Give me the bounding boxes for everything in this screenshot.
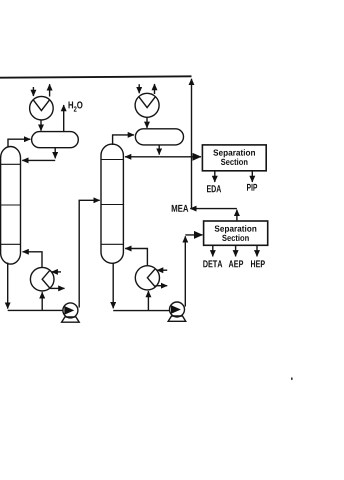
wire HEP product [256,245,258,256]
pump P1 [63,303,78,318]
wire recycle header (top) [0,76,192,77]
condenser E2 [135,93,159,117]
separation section 2 box [204,221,268,245]
column C1 section line 2 [1,204,21,206]
wire B2 liquid feed [147,291,149,311]
wire D1 reflux to C1 [22,159,55,161]
wire P2 discharge riser [184,236,186,306]
reflux drum D1 [32,132,79,148]
reboiler B1 [30,267,54,291]
wire H2O product [63,105,65,131]
wire E2 coolant out [154,84,156,94]
wire PIP product [251,171,253,182]
wire P1 discharge feed to C2 [79,200,100,307]
wire D2 outlet down [158,145,160,155]
wire AEP product [235,245,237,256]
wire D1 reflux down [54,148,56,158]
wire C1 bottoms down [7,263,9,309]
wire C2 overhead vapor to drum D2 [113,135,134,145]
label MEA [172,205,189,212]
pump P2 [170,302,185,317]
wire MEA recycle riser [191,79,193,209]
separation section 1 box [202,145,266,171]
wire C2 bottoms down [112,264,114,309]
wire DETA product [212,245,214,256]
label H2O [69,101,83,111]
wire E1 coolant in [32,87,34,96]
column C2 section line 3 [101,243,123,245]
wire E2 outlet to drum D2 [146,117,148,128]
reflux drum D2 [135,129,183,145]
column C2 section line 2 [101,204,123,206]
reboiler B2 [135,266,159,290]
column C2 section line 1 [101,159,123,161]
wire E1 coolant out [49,84,51,96]
wire C1 overhead vapor to drum D1 [8,139,30,147]
label AEP [229,260,244,267]
condenser E1 [30,96,54,120]
column C1 section line 1 [1,163,21,165]
wire D2 distillate to separation section 1 [159,156,201,158]
wire B1 liquid feed [41,292,43,310]
wire MEA header [190,208,237,210]
wire B1 vapor return to C1 [23,252,43,267]
label separation section 2 [215,225,257,233]
wire B2 vapor return to C2 [125,249,147,266]
wire MEA from separation section 2 [236,210,238,221]
wire P2 feed to separation section 2 [185,234,202,236]
column C1 [1,147,21,265]
column C2 [101,144,123,263]
wire B1 heat in [52,271,61,273]
label EDA [207,185,221,192]
label separation section 1 [213,149,255,157]
label DETA [203,260,222,267]
wire E2 coolant in [138,84,140,93]
wire D2 reflux to C2 [125,156,159,158]
speck artifact [291,378,293,380]
wire B2 heat out [155,285,167,287]
wire C1 bottoms to pump P1 [8,309,64,311]
wire B2 heat in [157,269,167,271]
label PIP [247,184,257,191]
label HEP [251,260,265,267]
wire C2 bottoms to pump P2 [113,310,170,312]
wire EDA product [214,171,216,182]
wire B1 heat out [50,287,64,289]
wire E1 outlet to drum D1 [40,120,42,131]
column C1 section line 3 [1,243,21,245]
